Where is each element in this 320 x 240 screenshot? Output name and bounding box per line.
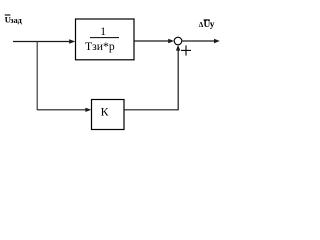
svg-text:у: у xyxy=(210,20,215,30)
node Uзад (input label) xyxy=(5,15,23,25)
wire: branch drop down xyxy=(36,42,38,111)
svg-text:Тзи*р: Тзи*р xyxy=(85,40,115,53)
plus sign at summing junction xyxy=(181,45,191,55)
arrow into summing junction (left) xyxy=(168,39,174,43)
svg-text:1: 1 xyxy=(100,26,106,38)
arrow into summing junction (bottom) xyxy=(176,45,180,51)
wire: integrator to summing junction xyxy=(134,40,169,42)
summing junction node xyxy=(174,37,182,45)
wire: input to integrator xyxy=(13,41,70,43)
wire: K output to feedback riser xyxy=(124,109,178,111)
arrow into integrator U1 xyxy=(69,39,75,44)
node ΔUy (output label) xyxy=(199,20,215,30)
gain block K xyxy=(92,100,125,130)
arrow output xyxy=(214,39,220,43)
value 1/Тзи*p xyxy=(85,26,119,53)
wire: feedback riser up to summing junction xyxy=(177,50,179,111)
wire: output from summing junction xyxy=(182,40,215,42)
wire: bottom feedback to K xyxy=(37,109,86,111)
arrow into gain K xyxy=(85,108,91,112)
svg-text:зад: зад xyxy=(10,16,22,25)
svg-text:К: К xyxy=(101,104,109,118)
integrator block U1 xyxy=(76,19,135,60)
